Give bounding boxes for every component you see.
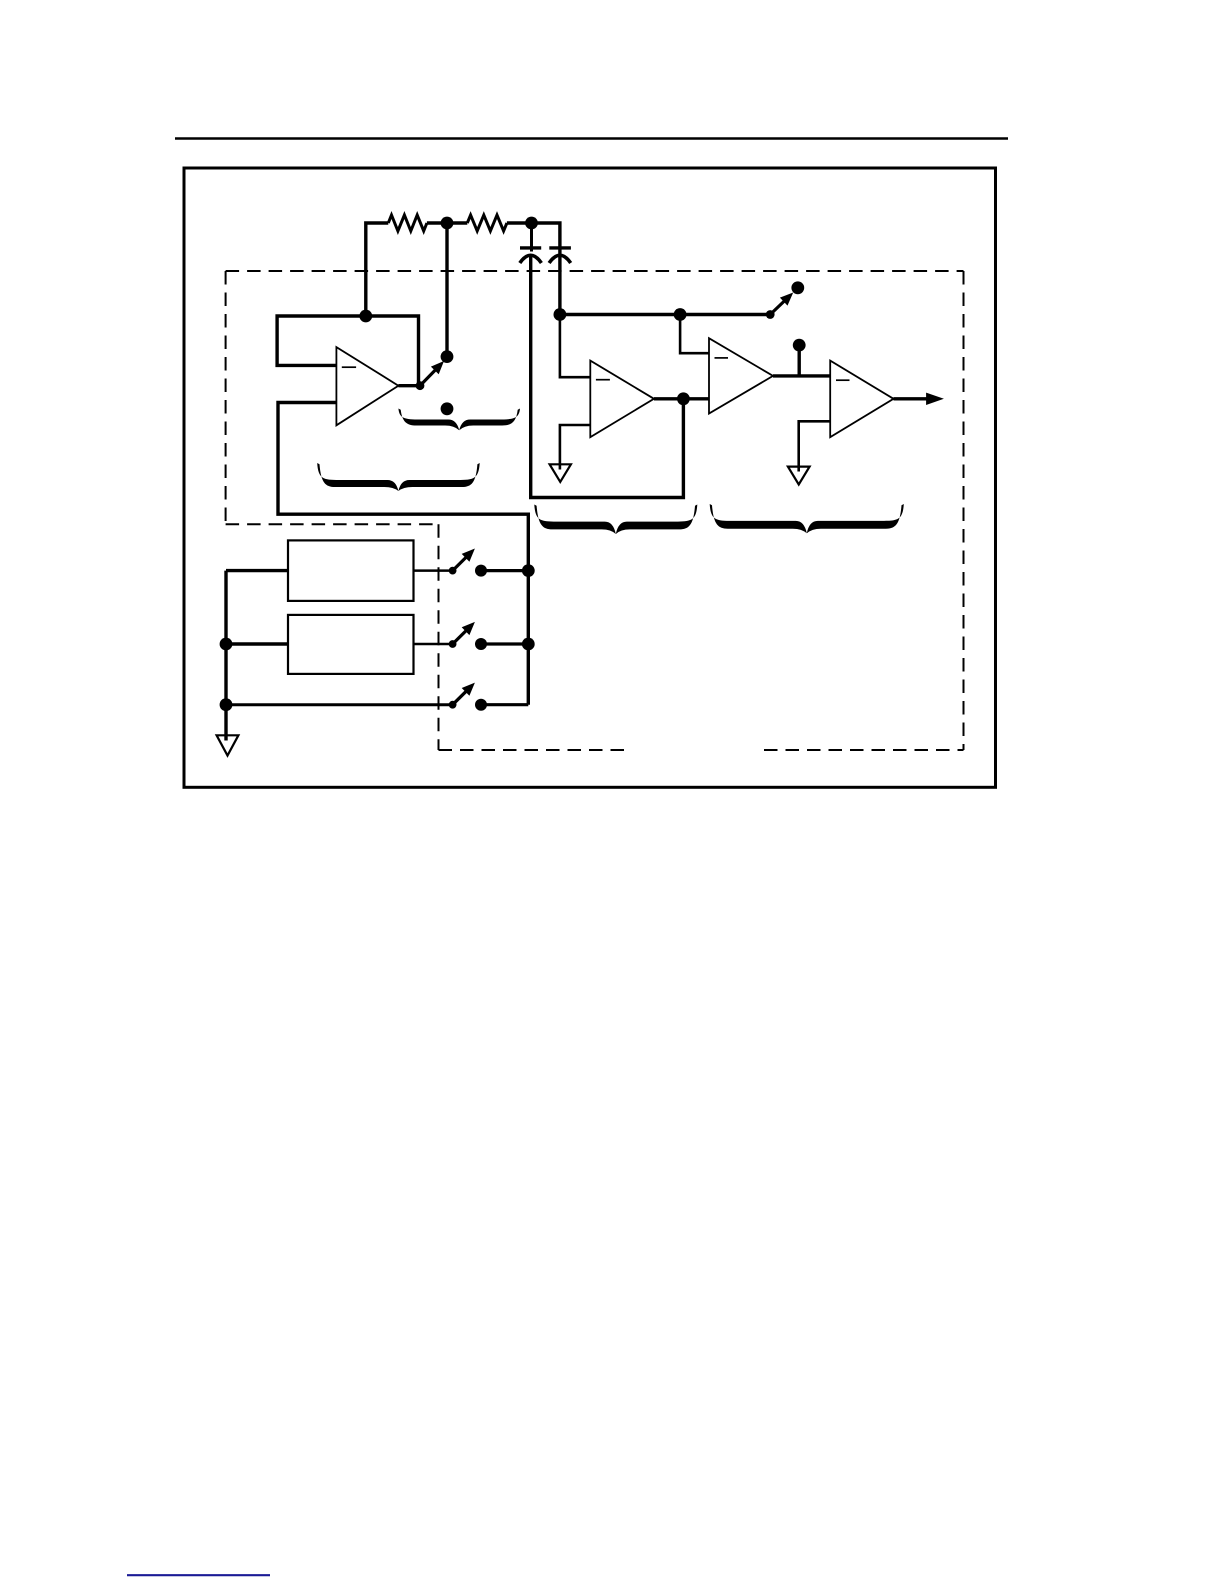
wire summing node to U2 inverting input bbox=[560, 315, 590, 378]
capacitor C2 bbox=[549, 248, 571, 263]
ground (U4) bbox=[788, 467, 810, 485]
dashed IC boundary bottom-left bbox=[226, 523, 439, 525]
node bus dot 2 bbox=[522, 638, 535, 651]
node feedback junction dot bbox=[359, 310, 372, 323]
wire node down to switch contact bbox=[445, 223, 448, 357]
switch S5 pivot dot bbox=[449, 701, 457, 709]
switch S4 contact dot bbox=[475, 638, 487, 650]
wire U3 output to U4 bbox=[773, 374, 830, 377]
switch S2 arm bbox=[770, 298, 787, 315]
wire input bus left bbox=[224, 571, 227, 741]
wire T node to U3 inverting input bbox=[680, 315, 709, 354]
figure frame bbox=[184, 168, 996, 787]
op-amp U2 bbox=[590, 361, 654, 438]
dashed IC boundary bottom-mid bbox=[439, 749, 628, 751]
node bus junction dot 2 bbox=[220, 698, 233, 711]
ground (U2) bbox=[550, 464, 571, 482]
wire U1 non-inverting input to bottom bus bbox=[278, 403, 528, 705]
wire summing node to switch S2 bbox=[560, 313, 770, 316]
wire bypass to switch S5 bbox=[226, 703, 453, 706]
wire U1 feedback loop bbox=[277, 316, 418, 386]
switch S5 contact dot bbox=[475, 699, 487, 711]
dashed IC boundary inner vertical bbox=[438, 524, 440, 750]
wire U2 non-inverting input to ground bbox=[560, 425, 590, 470]
op-amp U3 bbox=[709, 338, 773, 413]
node junction dot (R2/C) bbox=[525, 217, 538, 230]
node dot above brace bbox=[441, 402, 454, 415]
footer rule (blue) bbox=[127, 1574, 270, 1576]
dashed IC boundary right bbox=[963, 271, 965, 750]
node junction dot (R1/R2) bbox=[441, 217, 454, 230]
dashed IC boundary left bbox=[225, 271, 227, 524]
switch S4 arm bbox=[453, 628, 470, 645]
wire U1 output bbox=[398, 384, 420, 387]
wire to block 2 bbox=[226, 642, 288, 645]
switch S1 arm bbox=[420, 367, 439, 386]
wire S3 to bus bbox=[481, 569, 528, 572]
node U2 output junction dot bbox=[677, 392, 690, 405]
switch S4 pivot dot bbox=[449, 640, 457, 648]
resistor R2 bbox=[467, 215, 507, 231]
wire U4 non-inverting input to ground bbox=[799, 421, 831, 471]
dashed IC boundary top bbox=[226, 270, 964, 272]
wire S4 to bus bbox=[481, 642, 528, 645]
wire output with arrow bbox=[894, 397, 930, 400]
wire to block 1 bbox=[226, 569, 288, 572]
wire R1 to node bbox=[427, 221, 467, 224]
op-amp U1 bbox=[336, 347, 398, 425]
wire S5 to bus bbox=[481, 703, 528, 706]
brace (op-amp group) bbox=[317, 463, 480, 491]
dashed IC boundary bottom-right bbox=[764, 749, 964, 751]
switch S3 contact dot bbox=[475, 565, 487, 577]
switch S3 pivot dot bbox=[449, 567, 457, 575]
node bus junction dot 1 bbox=[220, 638, 233, 651]
node bus dot 1 bbox=[522, 564, 535, 577]
wire U2 output to U3 bbox=[654, 397, 709, 400]
node T junction dot bbox=[674, 308, 687, 321]
wire R2 to node bbox=[507, 221, 532, 224]
switch S5 arm bbox=[453, 688, 470, 705]
switch S2 contact dot bbox=[791, 281, 804, 294]
wire C2 down to summing node bbox=[558, 252, 561, 315]
capacitor C1 bbox=[520, 223, 542, 263]
wire from feedback node up to resistor R1 bbox=[366, 223, 389, 316]
node summing junction dot bbox=[554, 308, 567, 321]
switch S3 arm bbox=[453, 554, 470, 571]
wire block 1 to switch S3 bbox=[414, 569, 453, 572]
block 2 bbox=[288, 615, 414, 674]
wire stub to BP node bbox=[798, 350, 801, 376]
wire block 2 to switch S4 bbox=[414, 643, 453, 646]
switch S1 pivot dot bbox=[416, 381, 425, 390]
wire node to capacitor C2 bbox=[532, 223, 560, 252]
wire integrator feedback via C1 bbox=[531, 255, 684, 498]
brace (integrator 1 group) bbox=[534, 505, 697, 535]
switch S1 contact dot bbox=[441, 350, 454, 363]
node BP dot bbox=[793, 339, 806, 352]
switch S2 pivot dot bbox=[766, 310, 775, 319]
brace (integrator 2 group) bbox=[710, 504, 904, 533]
resistor R1 bbox=[388, 215, 427, 231]
top rule bbox=[175, 137, 1008, 139]
op-amp U4 bbox=[830, 361, 893, 438]
ground (input bus) bbox=[217, 735, 239, 755]
block 1 bbox=[288, 540, 414, 601]
brace (switch group) bbox=[398, 409, 520, 431]
